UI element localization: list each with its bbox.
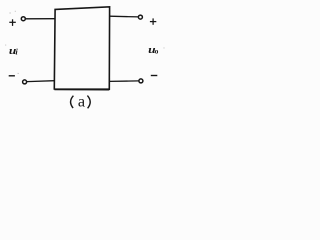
terminal output bottom (139, 79, 143, 83)
label ui input voltage (9, 44, 19, 57)
plus polarity mark output (150, 18, 156, 24)
terminal input bottom (23, 80, 27, 84)
wire output bottom (109, 80, 138, 83)
svg-text:o: o (155, 47, 159, 55)
plus polarity mark input (9, 19, 16, 26)
caption (a) (71, 91, 91, 110)
wire input bottom (27, 80, 55, 83)
svg-text:a: a (78, 91, 85, 110)
label uo output voltage (148, 43, 159, 56)
box bottom edge reinforcement (54, 89, 109, 91)
terminal output top (138, 15, 142, 19)
minus polarity mark output (151, 75, 158, 77)
minus polarity mark input (9, 75, 15, 77)
terminal input top (21, 17, 25, 21)
wire output top (110, 15, 139, 18)
scan speckles (5, 11, 164, 74)
two-port network box U1 (54, 7, 109, 89)
wire input top (26, 18, 55, 20)
